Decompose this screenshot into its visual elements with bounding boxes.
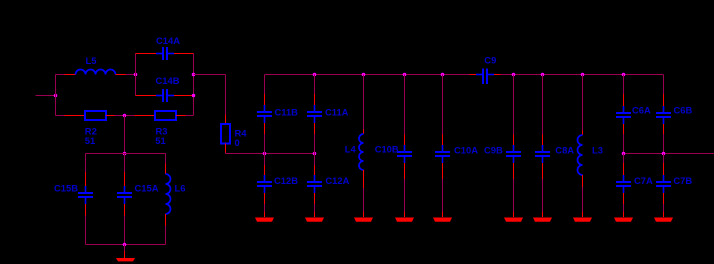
svg-text:C14B: C14B xyxy=(156,75,180,86)
wire junction down to C15 bank xyxy=(124,116,126,154)
wire to R2 xyxy=(56,115,65,117)
capacitor C14B xyxy=(136,75,194,102)
svg-text:L6: L6 xyxy=(175,183,186,194)
capacitor C9B xyxy=(484,75,521,212)
svg-text:C15B: C15B xyxy=(54,183,78,194)
wire R4 to mid rail xyxy=(226,153,315,154)
capacitor C7A xyxy=(616,154,653,212)
wire right mid rail xyxy=(624,153,714,155)
svg-text:C15A: C15A xyxy=(135,183,159,194)
svg-text:C10A: C10A xyxy=(454,145,478,156)
capacitor C12A xyxy=(307,154,350,212)
svg-text:51: 51 xyxy=(85,135,95,146)
inductor L3 xyxy=(578,75,603,188)
svg-text:C12A: C12A xyxy=(325,175,349,186)
svg-text:L5: L5 xyxy=(86,55,97,66)
svg-text:51: 51 xyxy=(155,135,165,146)
svg-text:C10B: C10B xyxy=(375,144,399,155)
svg-text:C7A: C7A xyxy=(634,175,653,186)
svg-text:C8A: C8A xyxy=(555,145,574,156)
svg-text:0: 0 xyxy=(235,137,240,148)
capacitor C11B xyxy=(257,75,298,154)
ground under C8A xyxy=(533,212,552,222)
wire C14 right vertical xyxy=(193,54,195,116)
ground under C10A xyxy=(433,212,452,222)
node mid rail C11B xyxy=(263,152,267,156)
svg-text:C7B: C7B xyxy=(673,175,692,186)
wire top bus right segment xyxy=(501,74,664,76)
node input junction xyxy=(54,94,58,98)
resistor R4 xyxy=(221,115,247,153)
wire left vertical xyxy=(55,75,57,116)
ground under C15 bank xyxy=(116,245,135,262)
svg-text:L4: L4 xyxy=(345,144,357,155)
capacitor C6A xyxy=(616,75,651,154)
node C14B right xyxy=(192,94,196,98)
wire L5 to C14 bank xyxy=(126,74,136,76)
capacitor C7B xyxy=(656,154,692,212)
svg-text:L3: L3 xyxy=(592,145,603,156)
wire input stub xyxy=(36,95,56,97)
node bus C11A xyxy=(313,73,317,77)
svg-text:C11A: C11A xyxy=(325,107,349,118)
svg-text:C11B: C11B xyxy=(275,107,299,118)
capacitor C11A xyxy=(307,75,349,154)
ground under C12A xyxy=(305,212,324,222)
wire R3 to right vertical xyxy=(186,115,194,117)
wire C15 bottom rail xyxy=(86,244,166,246)
resistor R2 xyxy=(65,111,115,146)
ground under C12B xyxy=(255,212,274,222)
node right rail C7B xyxy=(662,152,666,156)
wire to L5 xyxy=(56,74,65,76)
ground under C10B xyxy=(395,212,414,222)
ground under L3 xyxy=(573,187,592,222)
capacitor C9 xyxy=(470,55,501,85)
node L5 output xyxy=(134,73,138,77)
node C15 rail bottom xyxy=(123,243,127,247)
capacitor C14A xyxy=(136,35,194,60)
svg-text:C6B: C6B xyxy=(674,105,693,116)
wire C14 left vertical xyxy=(135,54,137,96)
node bus C10A xyxy=(441,73,445,77)
ground under C7B xyxy=(654,212,673,222)
svg-text:C9B: C9B xyxy=(484,145,503,156)
resistor R3 xyxy=(135,111,186,146)
wire node to R4 xyxy=(194,75,226,115)
capacitor C8A xyxy=(535,75,574,212)
inductor L6 xyxy=(166,154,186,245)
capacitor C6B xyxy=(656,75,692,154)
capacitor C15B xyxy=(54,154,93,245)
wire C15 top rail xyxy=(86,153,166,155)
svg-text:C9: C9 xyxy=(484,55,496,66)
node bus C8A xyxy=(541,73,545,77)
capacitor C15A xyxy=(117,154,159,245)
svg-text:C6A: C6A xyxy=(632,105,651,116)
node mid rail C11A xyxy=(313,152,317,156)
ground under C7A xyxy=(614,212,633,222)
node bus L3 xyxy=(581,73,585,77)
svg-text:C14A: C14A xyxy=(156,35,180,46)
node bus C9B xyxy=(512,73,516,77)
capacitor C10B xyxy=(375,75,412,212)
node bus C10B xyxy=(403,73,407,77)
wire R2 to junction xyxy=(115,115,135,117)
node R2-R3 junction xyxy=(123,114,127,118)
ground under C9B xyxy=(504,212,523,222)
inductor L5 xyxy=(65,55,126,75)
node right rail C7A xyxy=(622,152,626,156)
capacitor C10A xyxy=(435,75,478,212)
wire top bus left segment xyxy=(265,74,470,76)
svg-text:C12B: C12B xyxy=(274,175,298,186)
ground under L4 xyxy=(354,188,373,222)
node bus L4 xyxy=(362,73,366,77)
inductor L4 xyxy=(345,75,364,189)
node C15 rail top xyxy=(123,152,127,156)
node bus C6A xyxy=(622,73,626,77)
node C14 right mid xyxy=(192,73,196,77)
capacitor C12B xyxy=(257,154,298,212)
